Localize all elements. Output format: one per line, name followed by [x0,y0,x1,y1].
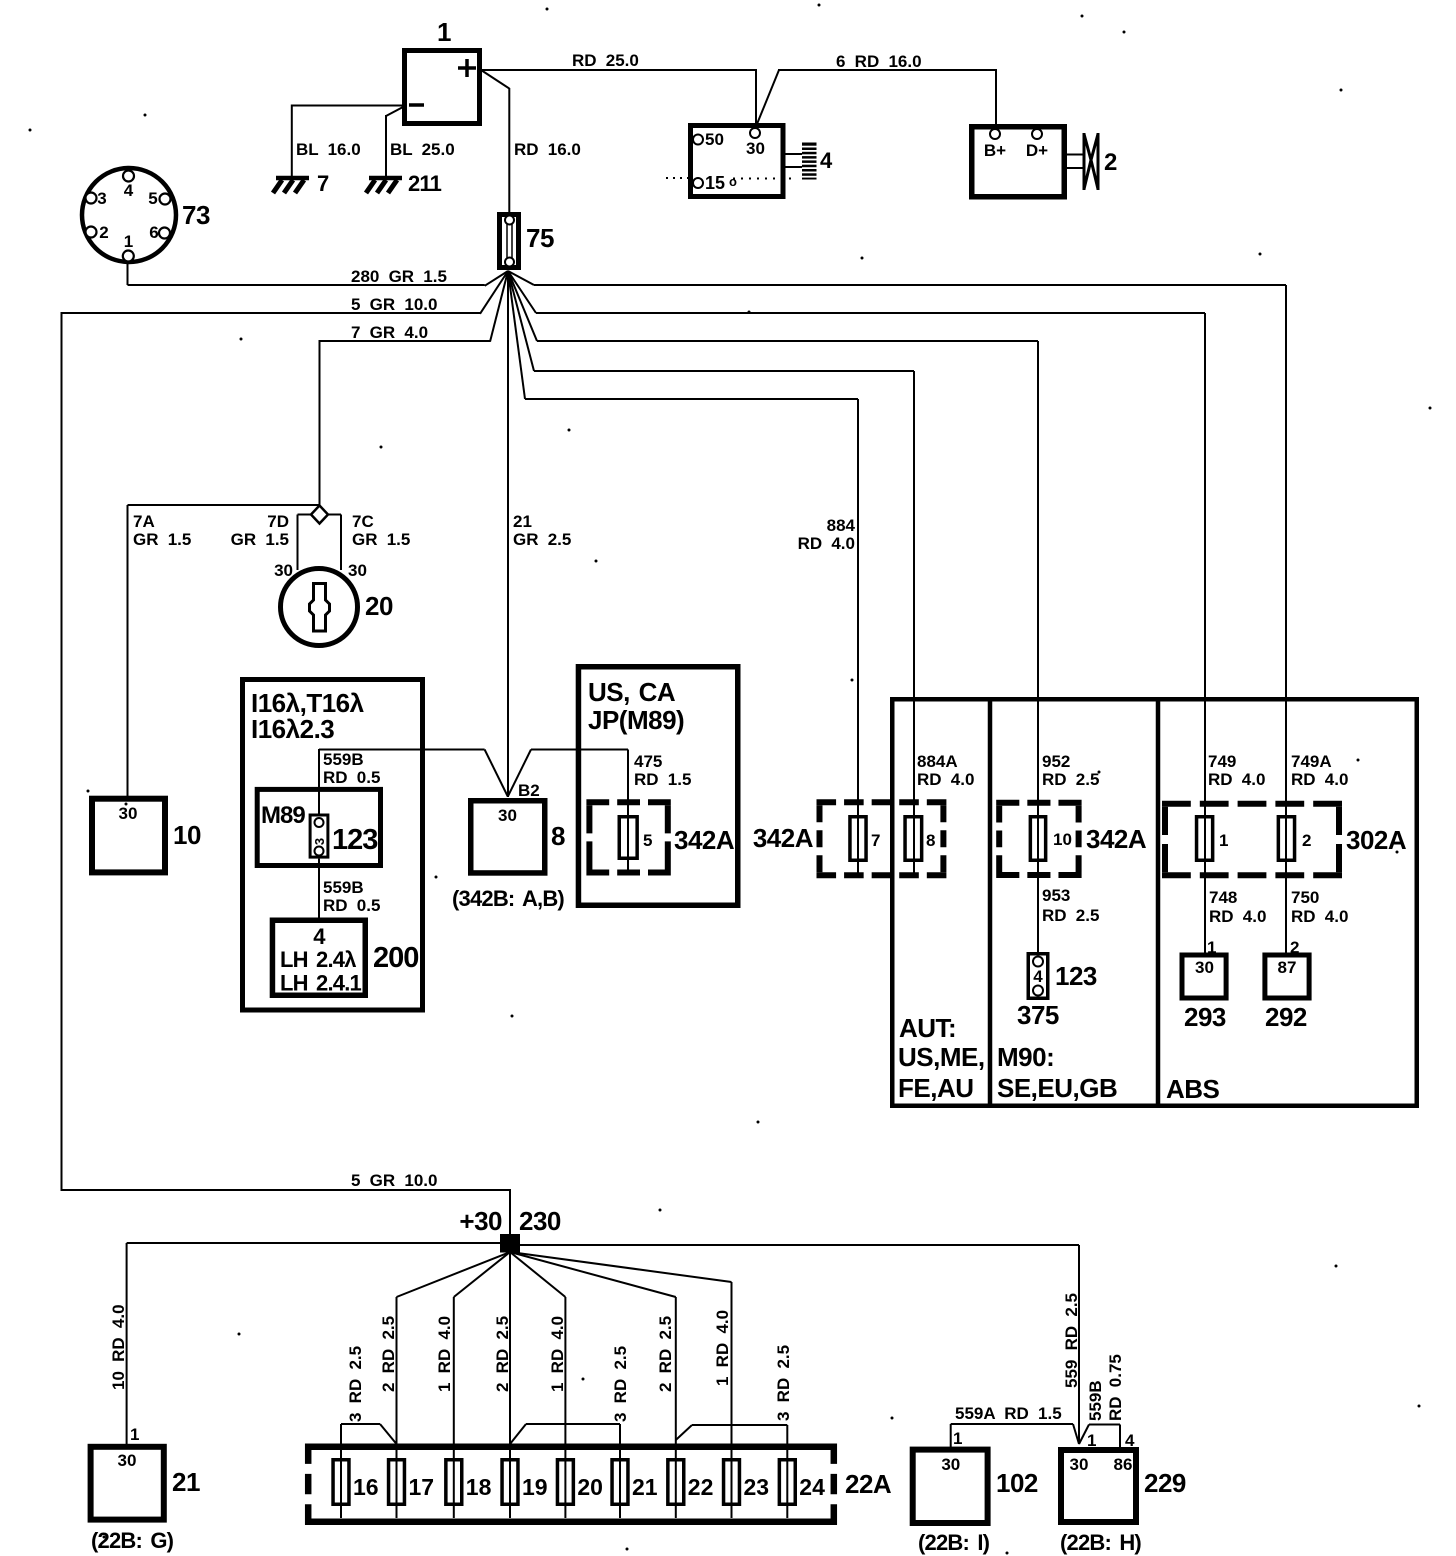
svg-text:123: 123 [332,824,378,856]
svg-text:73: 73 [182,200,210,230]
svg-text:RD 2.5: RD 2.5 [1042,906,1099,925]
svg-text:RD 4.0: RD 4.0 [1208,770,1265,789]
svg-text:FE,AU: FE,AU [898,1073,974,1103]
svg-text:GR 2.5: GR 2.5 [513,530,571,549]
svg-text:230: 230 [519,1206,561,1236]
svg-text:LH 2.4.1: LH 2.4.1 [280,971,362,996]
svg-text:RD 16.0: RD 16.0 [514,140,581,159]
svg-text:RD 4.0: RD 4.0 [917,770,974,789]
svg-text:302A: 302A [1346,825,1407,855]
svg-text:17: 17 [409,1474,435,1500]
svg-text:2: 2 [99,223,108,242]
svg-text:123: 123 [1055,961,1097,991]
svg-text:5: 5 [643,831,652,850]
svg-text:3 RD 2.5: 3 RD 2.5 [611,1346,630,1422]
svg-text:4: 4 [820,148,833,173]
svg-text:4: 4 [1033,967,1043,986]
svg-text:952: 952 [1042,752,1070,771]
svg-text:30: 30 [119,804,138,823]
svg-text:200: 200 [373,942,418,974]
svg-text:8: 8 [926,831,935,850]
svg-text:30: 30 [746,139,765,158]
svg-text:RD 1.5: RD 1.5 [634,770,691,789]
svg-text:1: 1 [953,1429,962,1448]
svg-text:884A: 884A [917,752,958,771]
svg-text:5 GR 10.0: 5 GR 10.0 [351,295,438,314]
svg-text:953: 953 [1042,886,1070,905]
svg-text:211: 211 [408,171,442,196]
svg-text:SE,EU,GB: SE,EU,GB [997,1073,1117,1103]
svg-text:30: 30 [118,1451,137,1470]
svg-text:87: 87 [1278,958,1297,977]
svg-text:RD 4.0: RD 4.0 [1209,907,1266,926]
svg-text:1 RD 4.0: 1 RD 4.0 [713,1310,732,1386]
svg-text:749: 749 [1208,752,1236,771]
svg-text:D+: D+ [1026,141,1048,160]
svg-text:2 RD 2.5: 2 RD 2.5 [656,1316,675,1392]
svg-text:(342B: A,B): (342B: A,B) [452,886,564,911]
svg-text:475: 475 [634,752,662,771]
svg-text:342A: 342A [753,823,814,853]
svg-text:JP(M89): JP(M89) [588,705,684,735]
svg-text:M89: M89 [261,802,305,829]
svg-text:(22B: I): (22B: I) [918,1530,990,1555]
svg-text:B+: B+ [984,141,1006,160]
svg-text:342A: 342A [1086,824,1147,854]
svg-text:50: 50 [705,130,724,149]
svg-text:1: 1 [437,17,451,47]
svg-text:75: 75 [526,223,554,253]
svg-text:749A: 749A [1291,752,1332,771]
svg-text:7D: 7D [267,512,289,531]
svg-text:30: 30 [941,1455,960,1474]
svg-text:86: 86 [1114,1455,1133,1474]
svg-text:7C: 7C [352,512,374,531]
svg-text:559B: 559B [323,878,364,897]
svg-text:US,ME,: US,ME, [898,1042,985,1072]
svg-text:293: 293 [1184,1002,1226,1032]
svg-text:4: 4 [124,181,134,200]
svg-text:RD 0.75: RD 0.75 [1106,1354,1125,1421]
svg-text:884: 884 [827,516,856,535]
svg-text:375: 375 [1017,1000,1059,1030]
svg-text:7A: 7A [133,512,155,531]
svg-text:8: 8 [551,821,565,851]
svg-text:30: 30 [498,806,517,825]
svg-text:3: 3 [97,189,106,208]
svg-text:3: 3 [312,838,327,845]
svg-text:RD 2.5: RD 2.5 [1042,770,1099,789]
svg-text:342A: 342A [674,825,735,855]
svg-text:3 RD 2.5: 3 RD 2.5 [346,1346,365,1422]
svg-text:292: 292 [1265,1002,1307,1032]
svg-text:1: 1 [1219,831,1228,850]
svg-text:2: 2 [1104,149,1117,176]
svg-text:559 RD 2.5: 559 RD 2.5 [1062,1293,1081,1388]
svg-text:22: 22 [688,1474,714,1500]
svg-text:1: 1 [124,232,133,251]
svg-text:30: 30 [274,561,293,580]
svg-text:+30: +30 [459,1206,502,1236]
svg-text:10 RD 4.0: 10 RD 4.0 [109,1304,128,1390]
svg-text:5: 5 [148,189,157,208]
svg-text:I16λ2.3: I16λ2.3 [251,714,334,744]
svg-text:10: 10 [1053,830,1072,849]
svg-text:RD 4.0: RD 4.0 [1291,770,1348,789]
svg-text:30: 30 [1070,1455,1089,1474]
svg-text:US, CA: US, CA [588,677,676,707]
svg-text:20: 20 [365,591,393,621]
svg-text:18: 18 [466,1474,492,1500]
svg-text:1 RD 4.0: 1 RD 4.0 [548,1316,567,1392]
svg-text:5 GR 10.0: 5 GR 10.0 [351,1171,438,1190]
svg-text:748: 748 [1209,888,1237,907]
svg-text:RD 25.0: RD 25.0 [572,51,639,70]
svg-text:3 RD 2.5: 3 RD 2.5 [774,1345,793,1421]
svg-text:(22B: H): (22B: H) [1060,1530,1141,1555]
svg-text:7: 7 [871,831,880,850]
svg-text:22A: 22A [845,1469,892,1499]
svg-text:102: 102 [996,1468,1038,1498]
svg-text:280 GR 1.5: 280 GR 1.5 [351,267,447,286]
svg-text:GR 1.5: GR 1.5 [231,530,289,549]
svg-text:7 GR 4.0: 7 GR 4.0 [351,323,428,342]
svg-text:24: 24 [799,1474,825,1500]
svg-text:2: 2 [1302,831,1311,850]
svg-text:RD 0.5: RD 0.5 [323,896,380,915]
svg-text:B2: B2 [518,781,540,800]
svg-text:ABS: ABS [1166,1074,1220,1104]
svg-text:559B: 559B [323,750,364,769]
svg-text:AUT:: AUT: [899,1013,956,1043]
svg-text:LH 2.4λ: LH 2.4λ [280,947,356,972]
svg-text:19: 19 [522,1474,548,1500]
svg-text:RD 0.5: RD 0.5 [323,768,380,787]
svg-text:559A RD 1.5: 559A RD 1.5 [955,1404,1062,1423]
svg-text:1 RD 4.0: 1 RD 4.0 [435,1316,454,1392]
svg-text:7: 7 [317,171,329,196]
svg-text:30: 30 [348,561,367,580]
svg-text:23: 23 [744,1474,770,1500]
svg-text:2 RD 2.5: 2 RD 2.5 [493,1316,512,1392]
svg-text:16: 16 [353,1474,379,1500]
svg-text:6: 6 [149,223,158,242]
svg-text:1: 1 [130,1425,139,1444]
svg-text:30: 30 [1195,958,1214,977]
svg-text:4: 4 [313,924,326,949]
svg-text:2 RD 2.5: 2 RD 2.5 [379,1316,398,1392]
svg-text:M90:: M90: [997,1042,1054,1072]
svg-text:10: 10 [173,820,201,850]
svg-text:GR 1.5: GR 1.5 [352,530,410,549]
svg-text:BL 16.0: BL 16.0 [296,140,361,159]
svg-text:BL 25.0: BL 25.0 [390,140,455,159]
svg-text:21: 21 [172,1467,200,1497]
svg-text:15: 15 [705,173,725,193]
svg-text:20: 20 [577,1474,603,1500]
svg-text:RD 4.0: RD 4.0 [1291,907,1348,926]
svg-text:229: 229 [1144,1468,1186,1498]
svg-text:21: 21 [513,512,532,531]
svg-text:750: 750 [1291,888,1319,907]
svg-text:559B: 559B [1086,1380,1105,1421]
svg-text:RD 4.0: RD 4.0 [798,534,855,553]
svg-text:(22B: G): (22B: G) [91,1528,174,1553]
svg-text:6 RD 16.0: 6 RD 16.0 [836,52,922,71]
svg-text:o: o [729,174,737,189]
svg-text:21: 21 [632,1474,658,1500]
svg-text:GR 1.5: GR 1.5 [133,530,191,549]
